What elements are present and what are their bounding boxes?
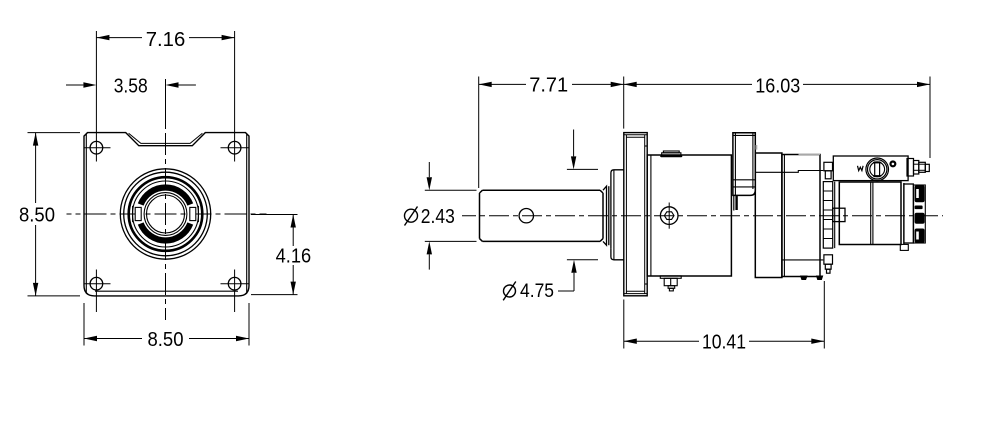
dimension 7.16 line and arrows bbox=[96, 37, 142, 39]
hole crosshair horizontals bottom bbox=[85, 283, 111, 285]
dia 4.75 arrows bbox=[573, 130, 575, 157]
dimension 10.41 line and arrows bbox=[624, 340, 699, 342]
dimension 8.50 bottom line and arrows bbox=[84, 338, 142, 340]
splined coupling ring bbox=[823, 182, 832, 249]
svg-text:16.03: 16.03 bbox=[755, 75, 800, 97]
W mark bbox=[858, 166, 864, 171]
svg-text:3.58: 3.58 bbox=[114, 75, 148, 97]
dimension 8.50 left extension lines bbox=[28, 132, 81, 134]
bore outer circle bbox=[120, 169, 210, 259]
dimension 8.50 left line and arrows bbox=[35, 133, 37, 203]
top plug on block A bbox=[662, 153, 681, 155]
dia 2.43 arrows bbox=[428, 162, 430, 177]
left tab lip bbox=[132, 206, 134, 222]
dimension 4.16 line and arrows bbox=[292, 215, 294, 247]
bracket foot bbox=[733, 195, 735, 210]
retaining ring thick arc bottom bbox=[141, 224, 191, 241]
step rings bbox=[608, 186, 610, 245]
svg-text:8.50: 8.50 bbox=[19, 204, 55, 226]
dimension 16.03 extension right bbox=[929, 77, 931, 159]
svg-text:4.75: 4.75 bbox=[520, 281, 554, 302]
svg-text:2.43: 2.43 bbox=[421, 206, 455, 228]
dimension 16.03 line and arrows bbox=[624, 83, 752, 85]
ribbed column bbox=[914, 185, 926, 243]
centre line vertical bbox=[165, 107, 167, 320]
dimension 7.71 / 16.03 shared extension bbox=[623, 77, 625, 129]
plate inner edge line right bbox=[246, 134, 248, 294]
small port circle bbox=[891, 162, 896, 167]
bore inner circle B bbox=[147, 195, 185, 233]
feet shading under C bbox=[800, 276, 808, 281]
hex socket bolt on block A face bbox=[660, 207, 678, 225]
bolt hole top-left bbox=[90, 141, 103, 154]
svg-text:10.41: 10.41 bbox=[702, 331, 746, 353]
svg-text:8.50: 8.50 bbox=[148, 329, 184, 351]
bore inner circle A bbox=[144, 193, 187, 236]
body block A bbox=[647, 155, 731, 276]
dimension 7.71 line and arrows bbox=[479, 83, 526, 85]
dia 4.75 text bbox=[504, 285, 516, 297]
bolt hole top-right bbox=[228, 141, 241, 154]
knob inner bbox=[870, 162, 885, 177]
hole crosshair horizontals top bbox=[85, 147, 111, 149]
body block C bbox=[782, 155, 820, 277]
left tab bbox=[135, 207, 141, 220]
main centre line bbox=[462, 215, 943, 217]
bottom drain bolt on block A bbox=[660, 276, 681, 278]
shaft bbox=[480, 190, 604, 241]
retaining ring thick arc top bbox=[141, 188, 191, 205]
svg-text:7.16: 7.16 bbox=[146, 29, 186, 51]
grey mark on bracket edge bbox=[756, 145, 758, 150]
plate inner edge line left bbox=[85, 134, 87, 294]
bore groove circle bbox=[133, 181, 199, 247]
knob slot bbox=[875, 162, 880, 177]
centre line horizontal bbox=[67, 213, 267, 215]
dimension 8.50 bottom extension lines bbox=[83, 303, 85, 346]
flange plate outline bbox=[84, 133, 249, 296]
motor bottom foot bbox=[900, 244, 908, 250]
end cap bbox=[904, 184, 913, 243]
dia 2.43 text bbox=[405, 209, 418, 222]
dia 4.75 extension lines bbox=[567, 168, 598, 170]
body C internal lines bbox=[756, 171, 823, 173]
hole crosshair verticals bottom bbox=[95, 270, 97, 313]
dimension 3.58 centre extension bbox=[165, 79, 167, 125]
notch inner chamfer lines bbox=[129, 133, 203, 143]
svg-text:7.71: 7.71 bbox=[529, 75, 568, 97]
bore third circle (thick) bbox=[129, 177, 203, 251]
shaft end cone bbox=[603, 186, 607, 245]
body block B bbox=[755, 153, 782, 278]
joint bolts (top) bbox=[824, 162, 833, 171]
plate inner edge line bottom bbox=[95, 290, 238, 292]
right tab bbox=[190, 207, 196, 220]
pilot boss (4.75 dia) bbox=[611, 170, 624, 260]
flange pilot step lines bbox=[645, 145, 648, 147]
dimension 4.16 extension lines bbox=[251, 214, 298, 216]
motor body bbox=[839, 182, 901, 245]
centre tab bbox=[833, 208, 845, 221]
dimension 3.58 arrows bbox=[66, 84, 83, 86]
right connector bbox=[907, 159, 914, 177]
joint bolts (bottom) bbox=[824, 255, 833, 264]
bolt hole bottom-left bbox=[90, 277, 103, 290]
dia 4.75 leader bbox=[558, 290, 574, 292]
dia 2.43 extension lines bbox=[425, 189, 477, 191]
flange side view bbox=[624, 133, 647, 296]
bore second circle bbox=[124, 172, 208, 256]
dimension 7.71 extension line left bbox=[478, 77, 480, 189]
grey ghost top edge bbox=[799, 153, 821, 155]
dimension 10.41 extension lines bbox=[623, 300, 625, 349]
bolt hole bottom-right bbox=[228, 277, 241, 290]
shaft cross hole bbox=[519, 209, 533, 223]
lifting bracket bbox=[733, 133, 755, 196]
knob outer rings bbox=[866, 158, 889, 181]
valve box on top bbox=[833, 156, 908, 181]
right tab lip bbox=[197, 206, 199, 222]
dimension 7.16 extension lines bbox=[95, 31, 97, 162]
svg-text:4.16: 4.16 bbox=[276, 246, 312, 268]
